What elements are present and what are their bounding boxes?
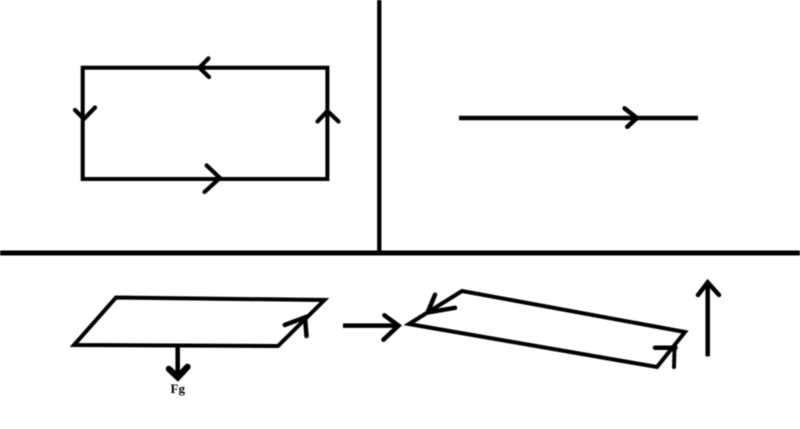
gravity arrowhead pointing down xyxy=(169,367,188,378)
arrow on left edge pointing down xyxy=(75,108,95,120)
arrow at bottom-right corner pointing up-right xyxy=(655,348,676,367)
arrow at left tip pointing down-left xyxy=(428,295,455,313)
left parallelogram plate xyxy=(74,298,325,347)
gravity arrow shaft xyxy=(175,347,180,375)
label Fg xyxy=(171,381,186,396)
middle arrowhead pointing right xyxy=(384,315,399,339)
middle arrow shaft xyxy=(343,323,397,328)
arrow on left plate right edge pointing up-right xyxy=(285,317,307,336)
upward arrowhead xyxy=(698,282,719,295)
upward arrow shaft xyxy=(705,283,710,356)
rectangle loop xyxy=(83,68,328,179)
arrow on bottom edge pointing right xyxy=(205,165,220,192)
top-right vector arrowhead pointing right xyxy=(625,108,637,126)
right tilted parallelogram plate xyxy=(409,291,685,367)
top-right vector line xyxy=(459,116,698,121)
horizontal divider line xyxy=(0,250,800,255)
arrow on right edge pointing up xyxy=(318,111,339,122)
vertical divider line xyxy=(377,0,381,253)
svg-text:Fg: Fg xyxy=(171,381,186,396)
arrow on top edge pointing left xyxy=(199,58,209,77)
